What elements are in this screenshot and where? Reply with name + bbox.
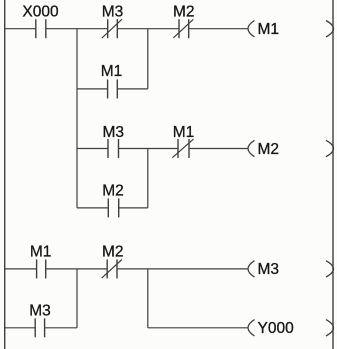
contact X000 (NO) — [36, 19, 46, 38]
svg-text:M3: M3 — [29, 302, 51, 319]
wire branch C right segment — [45, 327, 77, 329]
coil Y000 — [248, 320, 334, 338]
wire vertical junction rung3 to Y000 row — [147, 269, 149, 328]
svg-text:M2: M2 — [102, 243, 124, 260]
coil M3 — [248, 261, 334, 279]
contact M1 (NO) branch A — [108, 79, 118, 98]
contact M1 (NC) rung2 — [172, 139, 193, 158]
wire rung1 segment M2 to coil — [189, 28, 248, 30]
wire branch B right segment — [119, 207, 148, 209]
svg-text:M2: M2 — [258, 141, 280, 158]
contact M3 (NO) rung2 — [108, 139, 119, 158]
wire rung3 left segment — [5, 268, 37, 270]
right power rail — [332, 0, 334, 349]
svg-text:M2: M2 — [173, 3, 195, 20]
wire rung3 segment M2 to coil — [117, 268, 248, 270]
svg-text:M3: M3 — [258, 261, 280, 278]
wire rung2 segment M1 to coil — [189, 148, 248, 150]
contact M3 (NC) rung1 — [102, 19, 122, 38]
wire branch B left segment — [77, 207, 108, 209]
wire Y000 row segment — [148, 327, 248, 329]
wire vertical branch B right at x147.8 rung2 to M2 branch — [147, 149, 149, 208]
coil M2 — [248, 140, 334, 158]
svg-text:M1: M1 — [101, 63, 123, 80]
svg-text:M3: M3 — [103, 124, 125, 141]
wire rung1 segment M3 to M2 — [117, 28, 179, 30]
svg-text:M1: M1 — [258, 21, 280, 38]
svg-text:M3: M3 — [102, 3, 124, 20]
contact M2 (NC) rung1 — [173, 19, 193, 38]
svg-text:X000: X000 — [22, 3, 59, 20]
wire vertical branch from rung1 at x77 down to M2-branch level — [76, 29, 78, 208]
svg-text:M1: M1 — [30, 243, 52, 260]
svg-text:M1: M1 — [173, 124, 195, 141]
svg-text:M2: M2 — [102, 182, 124, 199]
wire branch A right segment — [117, 88, 148, 90]
contact M3 (NO) branch C — [35, 318, 44, 337]
wire rung2 left segment — [77, 148, 108, 150]
svg-text:Y000: Y000 — [258, 320, 295, 337]
wire rung2 segment M3 to M1 — [119, 148, 179, 150]
wire branch A left segment — [77, 88, 108, 90]
wire vertical branch C right at x77 rung3 to M3 branch — [76, 269, 78, 328]
wire branch C left segment from rail — [5, 327, 36, 329]
coil M1 — [248, 21, 334, 39]
wire rung1 segment X000 to M3 — [46, 28, 108, 30]
wire vertical branch A right at x147.8 rung1 to M1 branch — [147, 29, 149, 89]
contact M1 (NO) rung3 — [37, 259, 46, 278]
contact M2 (NO) branch B — [108, 198, 118, 217]
wire rung1 left segment — [5, 28, 36, 30]
left power rail — [4, 0, 6, 349]
wire rung3 segment M1 to M2 — [46, 268, 107, 270]
contact M2 (NC) rung3 — [102, 259, 122, 278]
